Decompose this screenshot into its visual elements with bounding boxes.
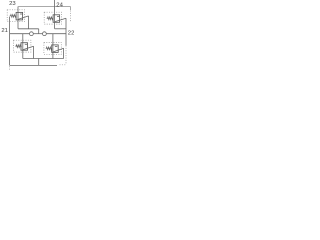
link circle A — [30, 32, 34, 36]
wire bus through S3 — [22, 34, 24, 59]
contact box S4 — [52, 45, 59, 53]
contact box S3 — [21, 43, 28, 51]
wire S3 blade drop — [33, 46, 35, 58]
contact S4 blade — [53, 48, 64, 52]
wire 21 bottom rail — [10, 64, 57, 66]
dashed wire bottom right horizontal — [60, 64, 67, 66]
bus wire middle segment — [33, 33, 42, 35]
contact S1 fixed bar — [20, 13, 22, 15]
wire top right corner down — [70, 7, 72, 10]
svg-text:21: 21 — [1, 28, 8, 34]
bus wire left segment — [10, 33, 30, 35]
proximity switch S2 housing (dashed) — [44, 12, 61, 24]
contact S4 fixed bar — [55, 46, 57, 48]
wire S4 blade drop — [63, 48, 65, 58]
wire 21 vertical — [9, 17, 11, 66]
wire 22 vertical — [65, 18, 67, 45]
resistor R3 — [15, 45, 21, 48]
proximity switch S3 housing (dashed) — [14, 40, 31, 52]
svg-text:22: 22 — [68, 31, 74, 37]
resistor R1 — [10, 15, 16, 18]
resistor R4 — [46, 47, 52, 50]
contact S2 fixed bar — [57, 15, 59, 17]
wire S1 U-route horizontal — [18, 28, 39, 30]
svg-text:23: 23 — [9, 1, 16, 7]
wire 23 top horizontal — [18, 6, 71, 8]
wire bus through S4 — [52, 34, 54, 59]
wire S1 to bus — [38, 29, 40, 34]
wire 24 through S2 — [54, 0, 56, 29]
resistor R2 — [47, 17, 53, 20]
contact S3 blade — [23, 46, 34, 50]
contact box S1 — [16, 12, 23, 20]
contact S2 blade — [55, 18, 66, 22]
wire link to rail drop — [38, 59, 40, 66]
contact S1 blade — [18, 16, 29, 20]
dashed continuation right — [70, 11, 72, 22]
wire S1 blade drop — [28, 16, 30, 29]
bus wire right segment — [46, 33, 66, 35]
contact box S2 — [53, 15, 60, 22]
dashed wire bottom right vertical — [65, 46, 67, 65]
wire bottom link horizontal — [23, 58, 64, 60]
link circle B — [43, 32, 47, 36]
dashed stub below 21 — [9, 66, 11, 70]
proximity switch S1 housing (dashed) — [7, 10, 24, 22]
svg-text:24: 24 — [56, 3, 63, 9]
proximity switch S4 housing (dashed) — [44, 42, 61, 54]
contact S3 fixed bar — [25, 43, 27, 45]
wire 23 through S1 — [17, 7, 19, 29]
wire S2 U-route horizontal — [55, 28, 66, 30]
